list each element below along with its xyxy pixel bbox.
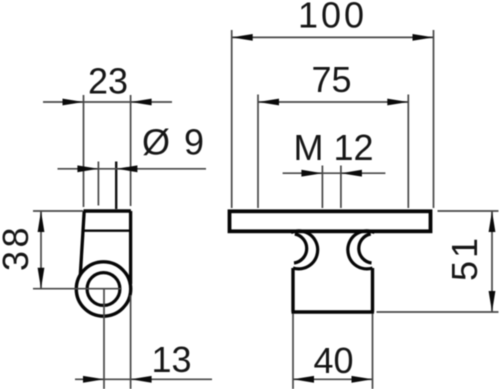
dim M12 right arrow	[341, 170, 362, 177]
inner hole circle	[87, 273, 120, 306]
neck right outer arc	[348, 231, 375, 269]
part head plate rectangle	[230, 211, 431, 231]
dim 100 left extension	[231, 30, 233, 208]
dim M12 right extension	[340, 166, 342, 209]
dim Ø9 right arrow	[116, 165, 137, 172]
dim 100 left arrow	[232, 34, 253, 41]
dim 23 right extension	[130, 95, 132, 206]
centerline horizontal through boss	[33, 288, 121, 290]
dim 75 right extension	[407, 95, 409, 209]
dim 75 left arrow	[258, 99, 279, 106]
part plate underside line	[82, 229, 130, 231]
dim M12 left arrow	[301, 170, 322, 177]
dim 23 right arrow	[131, 99, 152, 106]
stem right extension down	[372, 314, 374, 389]
dim 75 right arrow	[387, 99, 408, 106]
dim 38 top extension	[33, 210, 83, 212]
svg-text:51: 51	[444, 235, 485, 281]
neck right inner arc	[359, 234, 372, 263]
part left tangent edge	[80, 211, 84, 275]
dim 51 top extension	[438, 210, 499, 212]
dim 13 right arrow	[131, 376, 152, 383]
neck left outer arc	[291, 231, 318, 269]
dim 51 bottom extension	[377, 311, 499, 313]
dim 23 left arrow	[63, 99, 84, 106]
dim 40 line	[293, 378, 373, 380]
svg-text:38: 38	[0, 224, 36, 271]
dim 23 left extension	[83, 95, 85, 207]
dim 23 line	[43, 101, 172, 103]
dim 100 line	[232, 36, 434, 38]
part right edge	[129, 211, 132, 284]
dim M12 left extension	[321, 166, 323, 209]
dim 75 line	[258, 101, 408, 103]
dim 100 right arrow	[413, 34, 434, 41]
dim M12 line	[283, 172, 386, 174]
dim 38 top arrow	[38, 211, 45, 232]
dim 51 bottom arrow	[489, 291, 496, 312]
dim 75 left extension	[257, 95, 259, 209]
svg-text:13: 13	[152, 339, 192, 380]
dim 40 right arrow	[352, 376, 373, 383]
dim 13 right extension	[130, 295, 132, 389]
dim 100 right extension	[433, 30, 435, 208]
part top plate edge (side view)	[84, 209, 131, 213]
neck left inner arc	[294, 234, 307, 263]
svg-text:Ø 9: Ø 9	[142, 122, 206, 163]
stem left extension down	[292, 314, 294, 389]
dim 13 left arrow	[83, 376, 104, 383]
dim 13 line	[75, 378, 212, 380]
dim Ø9 line	[58, 168, 207, 170]
dim 51 line	[491, 211, 493, 312]
dim 51 top arrow	[489, 211, 496, 232]
stem right edge	[371, 268, 374, 312]
stem left edge	[291, 268, 294, 312]
svg-text:100: 100	[298, 0, 367, 36]
outer boss circle	[76, 262, 130, 316]
stem bottom edge	[292, 310, 375, 313]
dim 38 line	[40, 211, 42, 289]
svg-text:75: 75	[312, 59, 352, 100]
hole left feature line	[97, 162, 99, 206]
svg-text:M 12: M 12	[294, 127, 374, 168]
centerline vertical below boss	[103, 289, 105, 389]
svg-text:40: 40	[314, 340, 354, 381]
dim Ø9 left arrow	[77, 165, 98, 172]
dim 40 left arrow	[293, 376, 314, 383]
svg-text:23: 23	[88, 61, 128, 102]
hole right feature line (thick)	[115, 162, 117, 210]
dim 38 bottom arrow	[38, 268, 45, 289]
